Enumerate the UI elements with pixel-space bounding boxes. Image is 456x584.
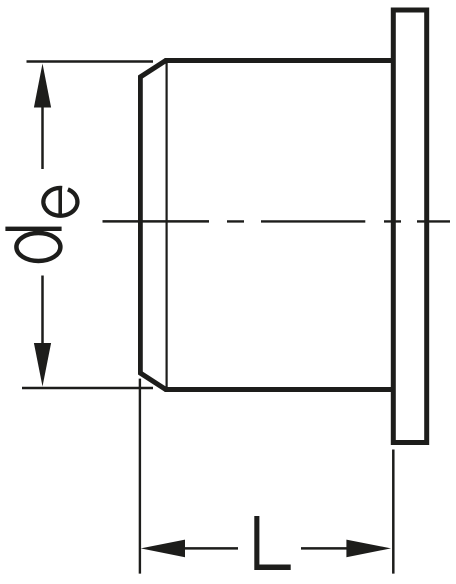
flange [393,10,426,443]
de arrow up [34,64,51,108]
chamfer top slant [140,61,166,78]
label d stem (rotated) [5,227,61,231]
L right extension line [392,450,395,574]
centerline dot 2 [384,220,401,222]
chamfer bottom slant [140,373,166,390]
L arrow left [141,540,185,558]
label d bowl (rotated) [16,233,60,261]
de bottom extension line [22,387,153,389]
de top extension line [27,60,154,62]
body left face [138,76,143,375]
label e crossbar (rotated) [58,188,62,216]
L dimension line right tail [301,547,348,550]
L dimension line left tail [184,547,238,550]
body bottom edge [165,387,393,392]
de dimension line lower segment [41,276,44,344]
de arrow down [34,343,51,387]
de dimension line upper segment [41,107,44,170]
chamfer edge line [166,62,168,388]
label e ring with gap (rotated) [43,188,77,216]
L left extension line [139,379,141,574]
centerline dash 2 [261,220,365,222]
centerline dot 1 [227,220,244,222]
body top edge [165,58,393,63]
centerline dash 1 [103,220,210,223]
label L [254,516,290,570]
L arrow right [346,540,391,558]
centerline dash 3 [417,220,450,222]
